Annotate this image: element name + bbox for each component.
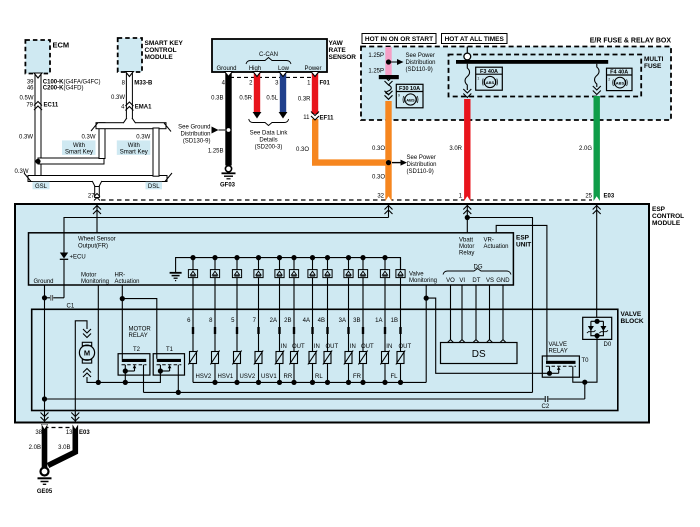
svg-text:ABS: ABS: [616, 81, 625, 86]
pin 25 entry (green) / E03: [585, 194, 615, 318]
svg-text:T2: T2: [133, 347, 141, 353]
svg-text:SENSOR: SENSOR: [329, 54, 357, 61]
svg-text:D0: D0: [604, 342, 612, 348]
svg-text:1.25P: 1.25P: [368, 69, 384, 75]
svg-text:1.25P: 1.25P: [368, 53, 384, 59]
wire 0.3R red (yaw power): [312, 73, 318, 114]
diode block D0: [583, 317, 612, 348]
svg-text:3A: 3A: [339, 318, 346, 324]
wire motor bottom to bus: [87, 371, 160, 382]
solenoid group labels: [196, 374, 399, 380]
wire VI to DS: [461, 285, 463, 340]
svg-text:3.0B: 3.0B: [58, 445, 70, 451]
svg-text:RL: RL: [315, 374, 323, 380]
svg-text:Distribution: Distribution: [180, 131, 210, 137]
svg-text:F3 40A: F3 40A: [480, 69, 498, 75]
diode +ECU: [60, 253, 86, 261]
svg-text:Actuation: Actuation: [484, 244, 509, 250]
svg-text:GF03: GF03: [220, 183, 236, 189]
wire C2 ground rail: [45, 396, 585, 410]
wire 2.0B black (pin 38 to ground): [42, 425, 48, 468]
svg-text:ESP: ESP: [652, 206, 666, 213]
label 0.3O above junction: [372, 146, 385, 152]
svg-text:MOTOR: MOTOR: [129, 327, 152, 333]
svg-text:E03: E03: [604, 194, 615, 200]
diode (valve monitor) col 4B: [323, 255, 332, 285]
wire/solenoid column 2B: [284, 285, 305, 382]
node junction orange wires: [386, 155, 437, 175]
svg-text:3.0R: 3.0R: [449, 146, 462, 152]
svg-text:3B: 3B: [353, 318, 360, 324]
fuse F4 label + ABS icon: [607, 68, 633, 90]
svg-text:EC11: EC11: [44, 103, 59, 109]
svg-text:E03: E03: [79, 430, 90, 436]
relay T0 (valve relay): [542, 336, 597, 382]
labels 2.0B / 3.0B: [29, 445, 71, 451]
wire 0.3O orange elbow to fuse junction: [315, 119, 388, 163]
multifuse busbar: [456, 60, 608, 64]
svg-text:With: With: [128, 143, 140, 149]
wire 3.0B black (pin 13 joins ground wire): [48, 425, 78, 466]
label 0.3W (left riser): [81, 135, 95, 141]
label 0.3O (yaw elbow): [296, 147, 309, 153]
svg-text:Smart Key: Smart Key: [120, 149, 148, 155]
svg-text:T1: T1: [166, 347, 174, 353]
svg-text:2: 2: [608, 78, 610, 82]
svg-text:(SD130-9): (SD130-9): [183, 138, 211, 144]
svg-text:E/R FUSE & RELAY BOX: E/R FUSE & RELAY BOX: [590, 38, 672, 45]
label HOT IN ON OR START: [362, 34, 436, 44]
connector dashed line along ESP module top edge: [101, 199, 592, 201]
wire/solenoid column 1B: [391, 285, 412, 382]
yaw box pin notches: [225, 72, 320, 77]
svg-text:Relay: Relay: [459, 251, 474, 257]
svg-text:See Data Link: See Data Link: [250, 131, 289, 137]
svg-text:RELAY: RELAY: [549, 349, 568, 355]
diode (valve monitor) col 5: [232, 255, 241, 285]
connector F01 pin numbers: [222, 80, 331, 86]
ECM pin connector notch: [34, 73, 42, 78]
wire DSL drop (white wire vertical): [153, 128, 159, 176]
node junction dot GSL branch: [35, 159, 40, 164]
diode (valve monitor) col 8: [210, 255, 219, 285]
motor branch wire to pin 13: [75, 321, 87, 423]
svg-text:USV2: USV2: [240, 374, 256, 380]
svg-text:Motor: Motor: [459, 244, 474, 250]
wire branch to GSL riser (white wire horizontal): [38, 158, 104, 164]
svg-text:OUT: OUT: [292, 344, 305, 350]
svg-text:46: 46: [27, 86, 34, 92]
VALVE BLOCK box: [32, 309, 644, 410]
diode (valve monitor) col 3B: [358, 255, 367, 285]
svg-text:2B: 2B: [284, 318, 291, 324]
fuse F30 busbar: [379, 75, 399, 79]
label With Smart Key (right): [117, 140, 151, 155]
svg-text:DS: DS: [472, 349, 486, 360]
svg-text:EMA1: EMA1: [135, 105, 152, 111]
pin 13 exit: [71, 413, 79, 422]
svg-text:CONTROL: CONTROL: [652, 213, 684, 220]
label 1.25B: [208, 148, 224, 154]
label 0.5W: [19, 96, 33, 102]
svg-text:Distribution: Distribution: [406, 60, 436, 66]
svg-text:0.3W: 0.3W: [14, 169, 28, 175]
svg-text:GE05: GE05: [37, 489, 53, 495]
fuse F30 label + ABS icon: [396, 84, 423, 108]
svg-text:C2: C2: [542, 404, 550, 410]
diode (valve monitor) col 2B: [289, 255, 298, 285]
svg-text:Smart Key: Smart Key: [65, 149, 93, 155]
ESP CONTROL MODULE box: [15, 204, 684, 423]
svg-text:1A: 1A: [375, 318, 382, 324]
svg-text:BLOCK: BLOCK: [621, 318, 644, 325]
svg-text:GSL: GSL: [35, 184, 48, 190]
label Ground: [34, 279, 54, 285]
SMART KEY CONTROL MODULE box: [118, 38, 184, 72]
wire 0.3B black (yaw ground): [225, 73, 231, 166]
ECM module box: [25, 40, 69, 74]
motor M: [79, 329, 94, 377]
diode (valve monitor) col 1B: [396, 258, 405, 285]
node junction valve monitoring: [424, 296, 429, 301]
node splice EMA1 wire into top rail: [123, 118, 136, 124]
wire size labels: [211, 95, 311, 102]
svg-text:Ground: Ground: [34, 279, 54, 285]
ground (chassis) inside ESP unit: [170, 273, 182, 281]
svg-text:MULTI: MULTI: [644, 56, 664, 63]
ECM pin labels 39/46 C100-K C200-K: [27, 80, 101, 92]
svg-text:F30 10A: F30 10A: [399, 86, 420, 92]
svg-text:0.3O: 0.3O: [372, 146, 385, 152]
svg-text:0.3R: 0.3R: [298, 96, 311, 102]
label 3.0R: [449, 146, 462, 152]
fuse F30 element: [385, 77, 393, 100]
svg-text:RATE: RATE: [329, 47, 347, 54]
svg-text:UNIT: UNIT: [516, 242, 531, 249]
label 0.3W (ECM branch): [19, 135, 33, 141]
label MOTOR RELAY: [129, 327, 152, 340]
solenoid bottom bus: [193, 381, 426, 383]
wire valve monitoring leg: [425, 285, 427, 382]
relay T2: [118, 347, 150, 392]
svg-text:See Power: See Power: [407, 155, 436, 161]
connector EMA1 (in-line): [121, 102, 152, 111]
node splice to pin 27 wire: [92, 181, 102, 201]
svg-text:DT: DT: [472, 278, 480, 284]
svg-text:1.25B: 1.25B: [208, 148, 224, 154]
svg-text:See Ground: See Ground: [178, 124, 210, 130]
svg-text:2A: 2A: [270, 318, 277, 324]
svg-text:RELAY: RELAY: [129, 333, 148, 339]
wire/solenoid column 5: [231, 285, 241, 382]
label HR-Actuation: [115, 273, 140, 286]
label Motor Monitoring: [81, 273, 109, 286]
svg-text:HOT IN ON OR START: HOT IN ON OR START: [365, 36, 433, 43]
wire/solenoid column 4A: [303, 285, 320, 382]
svg-text:Vbatt: Vbatt: [459, 238, 473, 244]
svg-text:SMART KEY: SMART KEY: [145, 40, 184, 47]
wire/solenoid column 6: [187, 285, 197, 382]
connector E03 dashed line at module bottom: [45, 427, 76, 429]
label Valve Monitoring: [409, 272, 437, 285]
fuse F4 element: [593, 64, 601, 95]
svg-text:VI: VI: [459, 278, 465, 284]
label Vbatt Motor Relay: [459, 238, 474, 257]
label 0.3W (below junction): [14, 169, 28, 175]
labels VO VI DT VS GND: [446, 278, 510, 284]
label With Smart Key (left): [62, 140, 96, 155]
svg-text:Actuation: Actuation: [115, 279, 140, 285]
svg-text:0.3W: 0.3W: [136, 135, 150, 141]
wire relay output to C2 rail: [584, 382, 586, 399]
wire Vbatt feed from pin 1 to relay contact bus: [467, 218, 532, 393]
pin 32 entry (orange): [377, 194, 392, 218]
svg-text:4B: 4B: [318, 318, 325, 324]
svg-text:RR: RR: [284, 374, 293, 380]
svg-text:Motor: Motor: [81, 273, 96, 279]
label 0.3W (smart key): [111, 95, 125, 101]
wire +ECU rail from pin 32: [64, 218, 389, 253]
wire/solenoid column 7: [253, 285, 263, 382]
ground GE05: [37, 468, 53, 496]
svg-text:11: 11: [303, 115, 310, 121]
pin 27 entry: [88, 194, 101, 233]
wire VS to DS: [489, 285, 491, 340]
relay T1: [153, 347, 184, 392]
svg-text:Valve: Valve: [409, 272, 424, 278]
svg-text:1: 1: [477, 77, 479, 81]
svg-text:With: With: [73, 143, 85, 149]
wire/solenoid column 4B: [318, 285, 339, 382]
node ring junction on black wire: [226, 128, 231, 133]
connector EF11 (in-line): [303, 112, 334, 122]
wire/solenoid column 3B: [353, 285, 374, 382]
node dot T1 contact: [176, 390, 181, 395]
E/R FUSE & RELAY BOX (dashed): [361, 38, 671, 121]
wire GND to DS: [502, 285, 504, 340]
wire valve monitor branch to valve relay coil: [426, 298, 549, 373]
label 0.3W (right drop): [136, 135, 150, 141]
fuse F3 label + ABS icon: [476, 67, 503, 90]
node dots on motor bus: [96, 380, 128, 385]
SMART KEY pin connector notch: [125, 72, 133, 77]
ESP UNIT box: [29, 233, 532, 285]
DS box with pin notches: [441, 340, 518, 364]
svg-text:0.5L: 0.5L: [266, 95, 278, 101]
wire top rail GSL/DSL (white wire horizontal): [91, 123, 171, 132]
svg-text:9: 9: [398, 94, 400, 98]
svg-text:Details: Details: [259, 138, 277, 144]
svg-text:2.0B: 2.0B: [29, 445, 41, 451]
svg-text:FR: FR: [353, 374, 362, 380]
diode (valve monitor) col 4A: [308, 255, 317, 285]
fuse F3 element: [463, 64, 471, 98]
wire 1.25P pink: [385, 47, 391, 75]
svg-text:MODULE: MODULE: [652, 220, 681, 227]
wire ground branch to diode (with C1 break): [45, 295, 65, 301]
svg-text:0.5W: 0.5W: [19, 96, 33, 102]
wire diode to ground junction: [63, 260, 65, 298]
svg-text:IN: IN: [281, 344, 287, 350]
labels 1.25P: [368, 53, 384, 75]
svg-text:25: 25: [585, 194, 592, 200]
wire valve-monitor ground bus: [176, 258, 401, 273]
note See Ground Distribution with arrow: [178, 124, 225, 144]
svg-text:HSV2: HSV2: [196, 374, 212, 380]
label 2.0G: [579, 146, 592, 152]
wire/solenoid column 8: [209, 285, 219, 382]
svg-text:2.0G: 2.0G: [579, 146, 592, 152]
svg-text:13: 13: [66, 430, 73, 436]
node junction on pink wire + see power distribution arrow: [386, 53, 436, 73]
svg-text:FUSE: FUSE: [644, 63, 662, 70]
svg-text:0.3W: 0.3W: [19, 135, 33, 141]
svg-text:Output(FR): Output(FR): [78, 244, 108, 250]
wire/solenoid column 2A: [270, 285, 287, 382]
svg-text:FL: FL: [391, 374, 399, 380]
wire 0.5L blue (C-CAN low): [279, 73, 288, 119]
svg-text:HR-: HR-: [115, 273, 126, 279]
wire stub from HOT AT ALL TIMES to busbar: [466, 47, 468, 55]
svg-text:OUT: OUT: [361, 344, 374, 350]
svg-text:Monitoring: Monitoring: [81, 279, 109, 285]
svg-text:OUT: OUT: [398, 344, 411, 350]
svg-text:VR-: VR-: [484, 238, 494, 244]
label VR-Actuation: [484, 238, 509, 251]
svg-text:CONTROL: CONTROL: [145, 47, 177, 54]
wire riser to DSL rail (white wire vertical): [99, 123, 105, 159]
connector F01 dashed line: [230, 76, 316, 78]
svg-text:+ECU: +ECU: [70, 255, 86, 261]
svg-text:27: 27: [88, 194, 95, 200]
label C-CAN with brace: [246, 52, 291, 64]
svg-text:4A: 4A: [303, 318, 310, 324]
svg-text:VO: VO: [446, 278, 455, 284]
node dot valve relay output: [582, 380, 587, 385]
svg-text:DSL: DSL: [148, 184, 160, 190]
svg-text:0.3B: 0.3B: [211, 95, 223, 101]
svg-text:VALVE: VALVE: [621, 311, 642, 318]
svg-text:Monitoring: Monitoring: [409, 278, 437, 284]
wire 0.3O orange (fuse F30 down to pin 32): [385, 101, 391, 201]
wire 2.0G green (fuse F4 down to pin 25): [594, 96, 600, 201]
pin 1 entry (red): [459, 194, 472, 233]
svg-text:1B: 1B: [391, 318, 398, 324]
node GSL: [33, 182, 50, 190]
svg-text:ABS: ABS: [406, 98, 415, 103]
wire 0.5R red (C-CAN high): [253, 73, 262, 119]
svg-text:VS: VS: [486, 278, 494, 284]
svg-text:0.3W: 0.3W: [81, 135, 95, 141]
label VALVE RELAY: [549, 342, 568, 355]
svg-text:F4 40A: F4 40A: [610, 70, 628, 76]
svg-text:DG: DG: [474, 265, 483, 271]
svg-text:79: 79: [26, 103, 33, 109]
svg-text:C200-K(G4FD): C200-K(G4FD): [43, 86, 84, 92]
solenoid bus junction dots: [212, 380, 403, 385]
svg-text:ABS: ABS: [486, 80, 495, 85]
diode (valve monitor) col 3A: [344, 255, 353, 285]
connector EC11 (in-line): [26, 102, 59, 111]
note See Data Link Details with brace: [249, 119, 289, 151]
pin labels 38 / 13 / E03: [35, 430, 90, 436]
node terminal circle on multifuse: [464, 53, 471, 60]
svg-text:IN: IN: [314, 344, 320, 350]
svg-text:See Power: See Power: [406, 53, 435, 59]
svg-text:ECM: ECM: [53, 41, 70, 50]
label Wheel Sensor Output(FR): [78, 237, 116, 250]
wire DT to DS: [475, 285, 477, 340]
svg-text:0.3O: 0.3O: [296, 147, 309, 153]
ground GF03: [220, 166, 236, 189]
svg-text:EF11: EF11: [320, 116, 335, 122]
svg-text:0.3O: 0.3O: [372, 175, 385, 181]
svg-text:YAW: YAW: [329, 40, 344, 47]
svg-text:IN: IN: [386, 344, 392, 350]
svg-text:GND: GND: [496, 278, 510, 284]
wire relay contact feed bus: [144, 391, 533, 393]
wire 3.0R red (fuse F3 down to pin 1): [464, 99, 470, 201]
svg-text:T0: T0: [582, 358, 590, 364]
svg-text:MODULE: MODULE: [145, 54, 174, 61]
label 0.3O below junction: [372, 175, 385, 181]
svg-text:M: M: [84, 349, 90, 358]
node junction ground leg: [42, 295, 47, 300]
svg-text:M33-B: M33-B: [134, 80, 153, 86]
node DSL: [146, 182, 163, 190]
svg-text:ESP: ESP: [516, 235, 530, 242]
svg-text:IN: IN: [350, 344, 356, 350]
wire SMART KEY 0.3W vertical (white wire): [126, 73, 132, 119]
label DG with brace: [443, 265, 511, 275]
pin 8 / M33-B: [122, 80, 153, 86]
diode (valve monitor) col 7: [254, 255, 263, 285]
diode (valve monitor) col 2A: [275, 255, 284, 285]
svg-text:USV1: USV1: [261, 374, 277, 380]
svg-text:32: 32: [377, 194, 384, 200]
wire ground leg from ESP unit: [44, 285, 46, 423]
svg-text:Wheel Sensor: Wheel Sensor: [78, 237, 116, 243]
diode (valve monitor) col 6: [188, 255, 197, 285]
svg-text:38: 38: [35, 430, 42, 436]
svg-text:0.5R: 0.5R: [239, 95, 252, 101]
diode (valve monitor) col 1A: [380, 255, 389, 285]
label HOT AT ALL TIMES: [442, 34, 508, 44]
svg-text:Distribution: Distribution: [407, 162, 437, 168]
wire ECM 0.5W/0.3W vertical (white wire): [35, 75, 41, 179]
svg-text:OUT: OUT: [325, 344, 338, 350]
wire/solenoid column 3A: [339, 285, 356, 382]
label C1: [67, 304, 75, 310]
wire HR branch to T1: [122, 299, 157, 359]
svg-text:0.3W: 0.3W: [111, 95, 125, 101]
node dot ground rail left: [42, 396, 47, 401]
pin 38 exit: [41, 413, 49, 422]
YAW RATE SENSOR box: [212, 39, 356, 72]
svg-text:VALVE: VALVE: [549, 342, 567, 348]
wire VR-actuation to valve relay: [496, 225, 547, 360]
MULTI FUSE box (dashed): [449, 55, 664, 97]
node junction pin1/Vbatt: [465, 215, 470, 220]
yaw box pin names: [217, 66, 322, 72]
svg-text:(SD110-9): (SD110-9): [406, 67, 433, 73]
node junction HR branch: [120, 296, 125, 301]
wire VO to DS: [450, 285, 452, 340]
wire/solenoid column 1A: [375, 285, 392, 382]
svg-text:HSV1: HSV1: [218, 374, 234, 380]
svg-text:(SD110-9): (SD110-9): [407, 169, 434, 175]
svg-text:(SD200-3): (SD200-3): [255, 145, 283, 151]
